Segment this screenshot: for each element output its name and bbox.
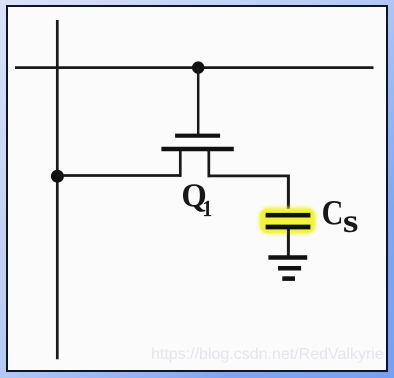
wire: drain to storage capacitor (horizontal) xyxy=(208,174,290,177)
wire: down to capacitor top plate xyxy=(287,175,290,215)
transistor Q1: source leg xyxy=(179,151,182,177)
label Cs (C glyph) xyxy=(323,201,341,225)
ground: middle bar xyxy=(278,266,301,271)
node: junction of gate line and gate stub xyxy=(192,61,204,73)
wire: source to data line xyxy=(57,174,181,177)
transistor Q1: gate bar xyxy=(175,134,220,138)
wire: gate (word) line, top horizontal xyxy=(15,66,374,69)
highlight behind capacitor Cs xyxy=(260,208,316,234)
watermark text xyxy=(151,346,384,364)
transistor Q1: channel bar xyxy=(161,147,233,151)
label Q1 (subscript 1 glyph) xyxy=(204,201,211,216)
capacitor Cs: bottom plate xyxy=(266,225,311,230)
label Cs (subscript s glyph) xyxy=(344,216,357,232)
ground: top bar xyxy=(268,255,307,260)
wire: data (bit) line, left vertical xyxy=(56,20,59,359)
transistor Q1: drain leg xyxy=(207,151,210,177)
ground: bottom bar xyxy=(282,276,295,281)
wire: gate stub down to transistor xyxy=(197,68,200,136)
capacitor Cs: top plate xyxy=(266,213,311,218)
label Q1 (Q glyph) xyxy=(183,184,205,212)
wire: capacitor to ground xyxy=(287,229,290,257)
node: junction on data line xyxy=(51,170,64,183)
